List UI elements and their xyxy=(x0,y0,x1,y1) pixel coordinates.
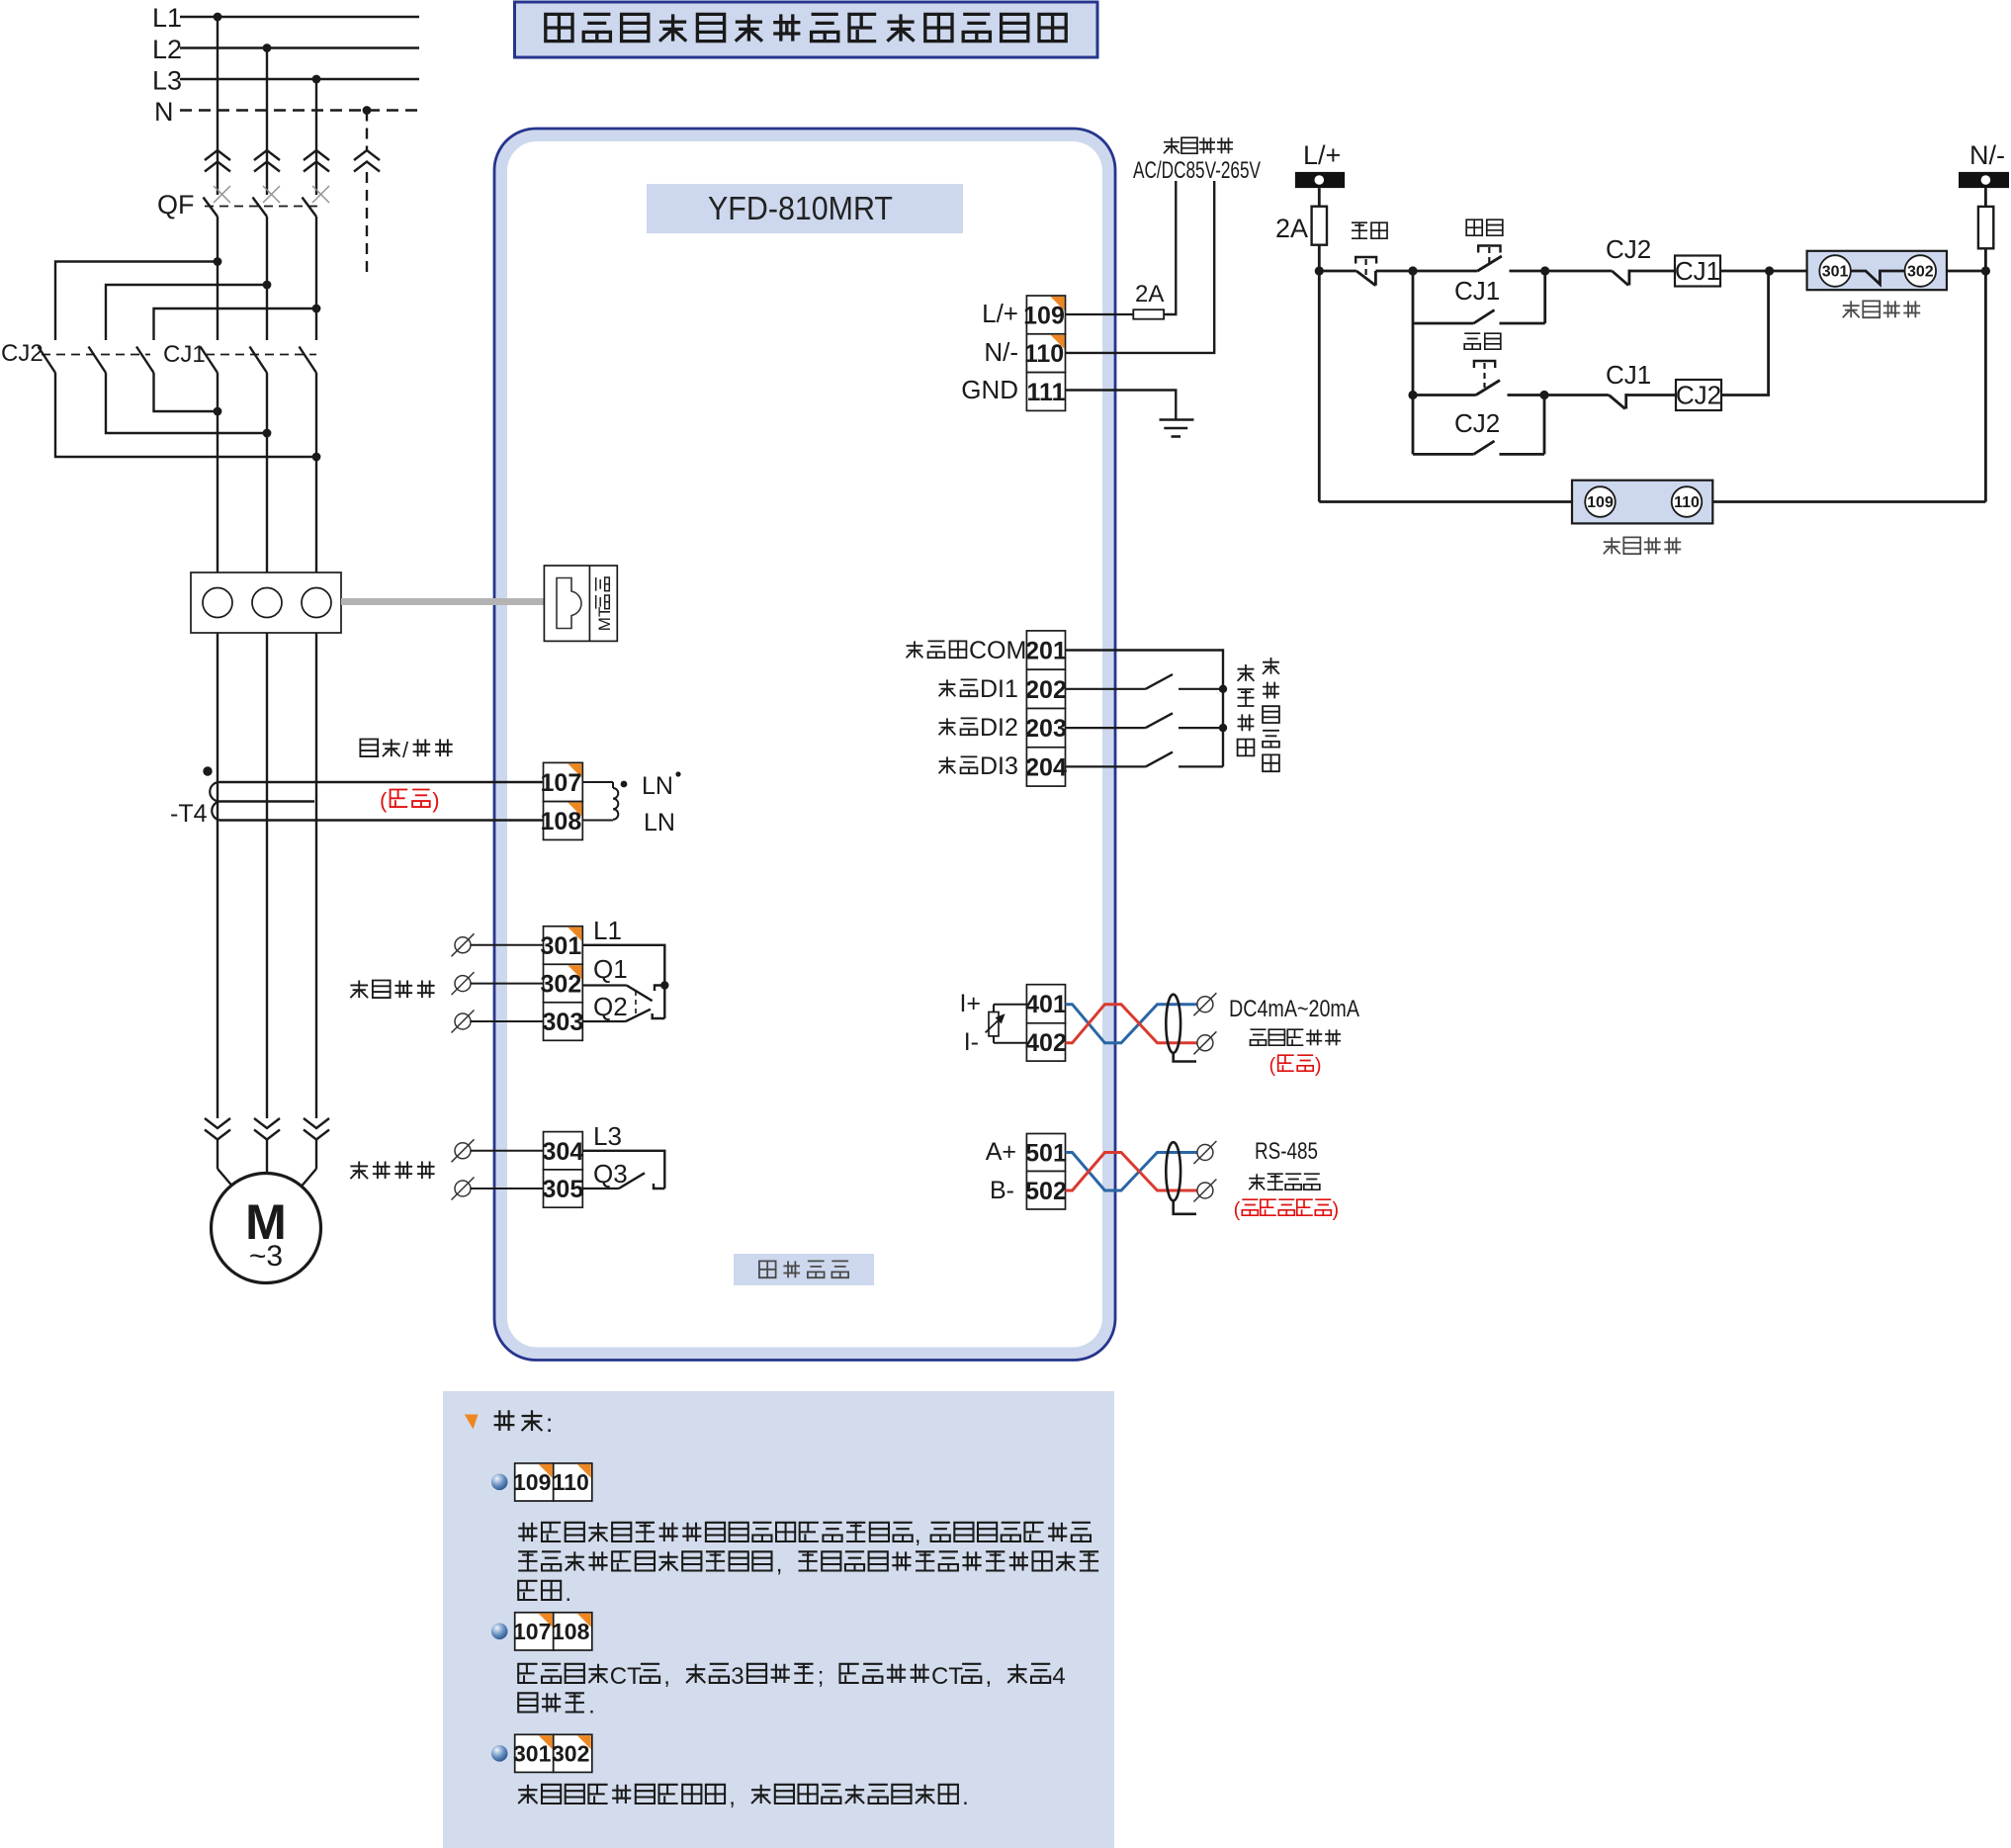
junction dot L rail xyxy=(1315,266,1324,275)
relay changeover fixed contact Q2 hook xyxy=(653,1013,665,1018)
svg-text:~3: ~3 xyxy=(249,1240,283,1273)
wire to CJ1 hold blade xyxy=(1413,322,1474,325)
svg-text:(: ( xyxy=(380,788,388,813)
screw RS485 B xyxy=(1197,1183,1213,1198)
wire phase A into motor xyxy=(217,1140,219,1170)
svg-text:CJ1: CJ1 xyxy=(1606,360,1651,390)
svg-text:I-: I- xyxy=(964,1028,979,1056)
bottom rail power box to N xyxy=(1712,500,1985,503)
notes marker triangle xyxy=(465,1415,479,1430)
wire 303 to blade xyxy=(582,1020,626,1022)
svg-text:COM: COM xyxy=(969,637,1026,664)
contactor CJ1 pole 3 blade xyxy=(300,347,317,374)
label 无源干接点 vertical xyxy=(1263,658,1279,674)
svg-text:MT: MT xyxy=(595,607,614,632)
svg-text:204: 204 xyxy=(1025,753,1067,781)
wire N/- into fuse xyxy=(1984,188,1987,501)
svg-text:108: 108 xyxy=(552,1619,590,1644)
terminal 203 xyxy=(1026,709,1065,748)
junction dot phase B branch xyxy=(263,281,272,290)
terminal 305 xyxy=(544,1170,583,1207)
wire CJ2 NC to coil CJ1 xyxy=(1629,270,1675,273)
motor feeder chevrons phase B xyxy=(254,1118,280,1128)
svg-text:201: 201 xyxy=(1025,638,1067,665)
wire fwd junction down to CJ1 hold xyxy=(1412,271,1415,454)
terminal 202 xyxy=(1026,669,1065,708)
contactor CJ1 linkage dashed xyxy=(206,354,316,356)
display port label box 显示接口 xyxy=(734,1254,874,1285)
contactor CJ1 pole 1 blade xyxy=(201,347,219,374)
junction dot CJ1 hold riser xyxy=(1540,266,1549,275)
breaker QF linkage dashed xyxy=(205,206,318,208)
svg-text:,: , xyxy=(776,1551,783,1578)
terminal 111 xyxy=(1026,373,1065,411)
svg-text:.: . xyxy=(565,1580,571,1607)
note paragraph 3 xyxy=(518,1785,537,1804)
label 保护输出 under box xyxy=(1843,301,1860,317)
screw RS485 A xyxy=(1197,1145,1213,1161)
screw analog - xyxy=(1197,1035,1213,1051)
wire screw to 303 xyxy=(471,1020,544,1022)
breaker isolator chevrons N xyxy=(354,150,380,160)
wire CJ2 pole2 crossover to phase B xyxy=(106,373,267,433)
fuse F1 2A xyxy=(1133,309,1164,319)
svg-text:L1: L1 xyxy=(593,916,622,945)
svg-text:3: 3 xyxy=(731,1663,743,1690)
motor feeder chevrons phase C xyxy=(304,1118,329,1128)
svg-text:110: 110 xyxy=(1674,494,1700,511)
wire phase B to CT xyxy=(266,373,268,572)
motor M 3-phase circle xyxy=(212,1174,321,1283)
protection output box 保护输出 xyxy=(1807,251,1947,290)
terminal 502 xyxy=(1026,1172,1065,1210)
coil CJ2 box xyxy=(1676,380,1721,410)
svg-text:501: 501 xyxy=(1025,1140,1067,1168)
wire rail to stop button xyxy=(1319,270,1356,273)
CT ring phase A xyxy=(203,588,232,618)
contact CJ1 NC blade xyxy=(1609,396,1625,409)
svg-text:203: 203 xyxy=(1025,715,1067,743)
stop button actuator xyxy=(1355,257,1376,264)
svg-text:.: . xyxy=(588,1693,595,1719)
screw terminal 302 xyxy=(455,976,471,992)
contactor CJ1 pole 2 blade xyxy=(250,347,268,374)
breaker QF pole 3 contact cross xyxy=(312,186,329,203)
label 报警输出 alarm output xyxy=(350,1162,368,1180)
wire N drop dashed xyxy=(366,111,368,151)
junction dot reverse merge xyxy=(1765,266,1774,275)
notes terminal pair 107 108 xyxy=(515,1613,554,1650)
svg-text:401: 401 xyxy=(1025,991,1067,1018)
svg-text:108: 108 xyxy=(541,808,582,836)
wire branch to CJ2 pole2 xyxy=(106,285,267,340)
MT port RJ45 icon xyxy=(557,578,581,629)
screw analog + xyxy=(1197,997,1213,1012)
svg-text:Q2: Q2 xyxy=(593,992,628,1021)
wire to CJ2 hold blade xyxy=(1413,453,1474,456)
wire DI2 to switch xyxy=(1066,727,1146,729)
stop button 停止 label xyxy=(1352,222,1367,238)
forward button actuator xyxy=(1478,246,1500,253)
svg-text:L/+: L/+ xyxy=(982,299,1018,328)
svg-text:305: 305 xyxy=(543,1176,584,1203)
device power box 装置电源 xyxy=(1572,481,1712,524)
twisted pair RS485 blue wire xyxy=(1066,1153,1198,1191)
relay device YFD-810MRT body outline xyxy=(494,129,1115,1361)
svg-text:QF: QF xyxy=(157,190,195,220)
wire phase C QF to CJ1 xyxy=(315,217,317,340)
junction dot relay common xyxy=(660,981,668,989)
terminal 301 xyxy=(544,926,583,965)
terminal 401 xyxy=(1026,985,1065,1023)
svg-text:I+: I+ xyxy=(959,990,981,1017)
svg-text:(: ( xyxy=(1269,1055,1276,1077)
CT ring phase B xyxy=(252,588,282,618)
coil polarity dot xyxy=(621,781,628,788)
svg-text:L3: L3 xyxy=(593,1121,622,1151)
svg-text:CJ2: CJ2 xyxy=(1676,381,1721,410)
svg-text:N/-: N/- xyxy=(1969,140,2005,170)
junction dot DI1 bus xyxy=(1219,685,1227,693)
wire phase C to CT xyxy=(315,373,317,572)
svg-text:304: 304 xyxy=(543,1138,584,1166)
wire L3 bus xyxy=(180,78,419,80)
junction dot at N rail xyxy=(1981,266,1990,275)
junction dot L1 tap xyxy=(214,13,222,22)
toroid CT T4 winding xyxy=(219,781,544,783)
breaker QF pole 2 blade xyxy=(253,198,268,218)
svg-text:B-: B- xyxy=(990,1177,1014,1204)
wire CJ2 pole1 crossover to phase C xyxy=(55,373,316,457)
svg-text:,: , xyxy=(986,1663,993,1690)
svg-text:.: . xyxy=(962,1784,969,1810)
junction dot crossover C xyxy=(312,453,321,462)
svg-text:2A: 2A xyxy=(1275,214,1308,243)
label 模拟量输出 xyxy=(1251,1029,1267,1045)
terminal 109 xyxy=(1026,296,1065,334)
screw terminal 301 xyxy=(455,937,471,953)
wire coil CJ2 up to output junction xyxy=(1721,271,1769,396)
wire N bus dashed xyxy=(180,109,419,111)
transducer arrow xyxy=(986,1016,1003,1032)
breaker QF pole 2 contact cross xyxy=(263,186,280,203)
twisted pair analog red wire xyxy=(1066,1005,1198,1043)
terminal 110 xyxy=(1026,334,1065,373)
wire fwd button to CJ2 NC xyxy=(1510,270,1613,273)
terminal 304 xyxy=(544,1132,583,1170)
svg-text:Q1: Q1 xyxy=(593,954,628,984)
wire phase C CT to toroid xyxy=(315,633,317,1118)
reverse button 反转 label xyxy=(1464,333,1480,349)
hold contact CJ2 blade xyxy=(1474,441,1495,454)
breaker QF pole 1 contact cross xyxy=(214,186,230,203)
wire COM to DI common bus xyxy=(1066,651,1224,767)
screw terminal 303 xyxy=(455,1013,471,1029)
svg-text:301: 301 xyxy=(541,932,582,960)
terminal 204 xyxy=(1026,748,1065,786)
wire phase B QF to CJ1 xyxy=(266,217,268,340)
breaker QF pole 3 blade xyxy=(303,198,317,218)
wire phase C drop from L3 xyxy=(315,79,317,195)
svg-text:109: 109 xyxy=(1587,494,1614,511)
CT ring phase C xyxy=(302,588,331,618)
wire junction to reverse button xyxy=(1413,394,1476,396)
svg-text:AC/DC85V-265V: AC/DC85V-265V xyxy=(1133,157,1261,184)
wire phase C into motor xyxy=(315,1140,317,1170)
svg-text:CJ1: CJ1 xyxy=(1454,276,1500,306)
contactor CJ2 pole 3 blade xyxy=(136,347,154,374)
wire 107 to coil LN xyxy=(582,781,613,783)
svg-text:-T4: -T4 xyxy=(170,800,208,828)
relay blade Q1 xyxy=(627,986,653,1002)
junction dot DI2 bus xyxy=(1219,724,1227,732)
wire CJ1 NC to coil CJ2 xyxy=(1626,394,1676,396)
svg-text:CJ1: CJ1 xyxy=(1675,256,1720,286)
junction dot crossover A xyxy=(214,407,222,416)
shield drain analog xyxy=(1174,1053,1196,1062)
supply bar L/+ xyxy=(1295,172,1345,188)
label 通用 DI2 xyxy=(939,718,956,735)
contact circle 301 xyxy=(1819,255,1851,287)
wire 301 relay common xyxy=(582,945,664,1018)
breaker isolator chevrons phase A xyxy=(205,150,230,160)
junction dot crossover B xyxy=(263,429,272,438)
svg-text:CJ2: CJ2 xyxy=(1454,408,1500,438)
twisted pair analog blue wire xyxy=(1066,1005,1198,1043)
svg-text:DI1: DI1 xyxy=(980,675,1018,703)
svg-text:107: 107 xyxy=(541,769,582,797)
svg-text:111: 111 xyxy=(1027,379,1066,406)
power circle 110 xyxy=(1672,486,1703,517)
label 公用端COM xyxy=(907,641,923,658)
label 通用 DI1 xyxy=(939,679,956,696)
junction dot N tap xyxy=(363,106,372,115)
control fuse N xyxy=(1978,207,1993,248)
cable shield ellipse RS485 xyxy=(1166,1142,1180,1200)
junction dot reverse row xyxy=(1408,391,1417,399)
svg-text:CT: CT xyxy=(610,1663,642,1690)
wire CJ2 hold to reverse riser xyxy=(1500,453,1545,456)
svg-text:LN: LN xyxy=(642,772,673,800)
twisted pair RS485 red wire xyxy=(1066,1153,1198,1191)
svg-text:CJ1: CJ1 xyxy=(163,341,206,368)
wire branch to CJ2 pole1 xyxy=(55,262,218,341)
svg-text:DI2: DI2 xyxy=(980,714,1018,742)
wire 108 to coil LN xyxy=(582,820,613,822)
ground symbol xyxy=(1160,418,1194,421)
contactor CJ2 pole 2 blade xyxy=(89,347,107,374)
remote switch DI3 blade xyxy=(1146,752,1173,767)
svg-text:109: 109 xyxy=(1023,302,1065,329)
transducer element xyxy=(989,1012,999,1036)
wire phase A to CT xyxy=(217,373,219,572)
wire screw to 305 xyxy=(471,1188,544,1189)
wire 305 to blade xyxy=(582,1188,619,1189)
label 通讯接口 xyxy=(1249,1174,1265,1189)
wire DI1 to switch xyxy=(1066,688,1146,690)
svg-text:): ) xyxy=(432,788,439,813)
wire phase B into motor xyxy=(266,1140,268,1175)
terminal 108 xyxy=(544,802,583,840)
wire phase B drop from L2 xyxy=(266,48,268,196)
svg-text:): ) xyxy=(1333,1199,1340,1221)
wire reverse button to CJ1 NC xyxy=(1508,394,1610,396)
svg-text:,: , xyxy=(915,1522,921,1548)
junction dot L3 tap xyxy=(312,75,321,84)
svg-text:4: 4 xyxy=(1052,1663,1065,1690)
wire screw to 301 xyxy=(471,944,544,946)
breaker isolator chevrons phase B xyxy=(254,150,280,160)
wire fuse to supply riser xyxy=(1164,181,1176,314)
notes bullet sphere 3 xyxy=(491,1745,508,1762)
alarm fixed contact hook xyxy=(654,1184,664,1188)
protection contact zigzag xyxy=(1851,271,1905,285)
svg-text:L/+: L/+ xyxy=(1303,140,1341,170)
wire branch to CJ2 pole3 xyxy=(154,308,317,340)
motor feeder chevrons phase A xyxy=(205,1118,230,1128)
svg-text:202: 202 xyxy=(1025,676,1067,704)
svg-text:GND: GND xyxy=(961,375,1018,404)
supply bar N/- xyxy=(1959,172,2009,188)
MT port label MT接口 vertical xyxy=(595,577,614,631)
svg-text:LN: LN xyxy=(644,809,675,836)
reverse button NO blade xyxy=(1476,381,1500,396)
relay changeover fixed contact Q1 hook xyxy=(655,986,664,992)
terminal 303 xyxy=(544,1003,583,1041)
svg-text:302: 302 xyxy=(541,971,582,999)
notes terminal pair 109 110 xyxy=(515,1463,554,1501)
svg-text:301: 301 xyxy=(1822,264,1849,281)
svg-text:110: 110 xyxy=(553,1469,589,1495)
svg-text:502: 502 xyxy=(1025,1178,1067,1205)
terminal 201 xyxy=(1026,631,1065,669)
label 遥信输入 vertical xyxy=(1238,664,1255,681)
svg-text:110: 110 xyxy=(1024,340,1064,368)
label 零序/漏电 xyxy=(360,740,378,757)
svg-text:/: / xyxy=(402,738,409,762)
svg-text:109: 109 xyxy=(513,1469,551,1495)
contactor CJ2 linkage dashed xyxy=(42,354,150,356)
notes panel background xyxy=(443,1391,1114,1848)
label 通用 DI3 xyxy=(939,756,956,773)
relay blade Q3 xyxy=(619,1173,645,1188)
reverse button actuator xyxy=(1474,361,1495,368)
svg-text:107: 107 xyxy=(513,1619,551,1644)
svg-text:L1: L1 xyxy=(152,3,182,33)
svg-text:L3: L3 xyxy=(152,66,182,96)
notes bullet sphere 2 xyxy=(491,1624,508,1640)
forward button NO blade xyxy=(1478,256,1502,271)
svg-text:YFD-810MRT: YFD-810MRT xyxy=(708,190,893,226)
shield drain RS485 xyxy=(1174,1200,1196,1213)
wire phase A CT to toroid xyxy=(217,633,219,1118)
transducer stub wires xyxy=(994,1004,1026,1006)
screw terminal 305 xyxy=(455,1181,471,1196)
wire junction to fwd button xyxy=(1413,270,1478,273)
wire L2 bus xyxy=(180,46,419,48)
inductor LN coil xyxy=(612,782,614,788)
label 保护输出 protection output xyxy=(350,981,368,999)
stop button NC blade xyxy=(1356,271,1376,286)
label 装置电源 under power box xyxy=(1604,537,1620,554)
bottom rail to power box xyxy=(1319,500,1572,503)
wire 302 to blade xyxy=(582,984,626,986)
junction dot fwd branch xyxy=(1408,266,1417,275)
cable shield ellipse analog xyxy=(1166,995,1180,1053)
breaker isolator chevrons phase C xyxy=(304,150,329,160)
svg-text:(: ( xyxy=(1234,1199,1241,1221)
toroid CT T4 polarity dot xyxy=(203,766,212,775)
svg-text:,: , xyxy=(729,1784,736,1810)
note paragraph 1 xyxy=(518,1523,537,1541)
wire phase A drop from L1 xyxy=(217,17,219,195)
junction dot L2 tap xyxy=(263,44,272,52)
svg-text:N: N xyxy=(154,97,174,127)
junction dot CJ2 hold riser xyxy=(1539,391,1548,399)
notes terminal pair 301 302 xyxy=(515,1734,554,1772)
remote switch DI1 blade xyxy=(1146,674,1173,689)
wire CJ2 pole3 crossover to phase A xyxy=(154,373,219,411)
current transformer block xyxy=(191,572,341,633)
wire stop to fwd junction xyxy=(1375,270,1413,273)
forward button 正转 label xyxy=(1466,220,1482,235)
title box 正反转保护跳闸方式典型接线图 xyxy=(515,2,1098,57)
wire 110 to supply riser xyxy=(1066,181,1215,353)
wire 304 alarm common xyxy=(582,1151,664,1188)
svg-text:,: , xyxy=(663,1663,670,1690)
contact CJ2 NC blade xyxy=(1612,271,1628,286)
wire L1 bus xyxy=(180,16,419,18)
svg-text:303: 303 xyxy=(543,1009,584,1036)
svg-text:CJ2: CJ2 xyxy=(1606,234,1651,264)
terminal 107 xyxy=(544,762,583,801)
wire L/+ into fuse xyxy=(1318,188,1321,271)
label 装置电源 device power top xyxy=(1164,137,1180,153)
svg-text:CT: CT xyxy=(931,1663,963,1690)
notes title 说明: xyxy=(494,1410,515,1431)
hold contact CJ1 blade xyxy=(1474,310,1495,324)
relay blade Q2 xyxy=(626,1010,651,1021)
power circle 109 xyxy=(1585,486,1616,517)
svg-text:402: 402 xyxy=(1025,1029,1067,1057)
svg-text:301: 301 xyxy=(513,1741,552,1767)
svg-text:): ) xyxy=(1315,1055,1322,1077)
svg-text:302: 302 xyxy=(1907,264,1934,281)
contactor CJ2 pole 1 blade xyxy=(39,347,56,374)
svg-text:DC4mA~20mA: DC4mA~20mA xyxy=(1229,996,1359,1022)
svg-text:A+: A+ xyxy=(986,1138,1016,1166)
svg-text:RS-485: RS-485 xyxy=(1255,1138,1318,1165)
breaker QF pole 1 blade xyxy=(204,198,219,218)
MT port connector box xyxy=(544,566,617,641)
wire DI3 to switch xyxy=(1066,765,1146,767)
svg-text::: : xyxy=(546,1408,553,1438)
svg-text:302: 302 xyxy=(552,1741,589,1767)
svg-text:;: ; xyxy=(818,1663,825,1690)
junction dot phase C branch xyxy=(312,305,321,313)
terminal 302 xyxy=(544,964,583,1003)
wire screw to 304 xyxy=(471,1150,544,1152)
gray cable CT to MT port xyxy=(341,598,545,605)
svg-text:Q3: Q3 xyxy=(593,1159,628,1188)
svg-text:CJ2: CJ2 xyxy=(1,340,44,367)
svg-text:L2: L2 xyxy=(152,35,182,64)
note paragraph 2 xyxy=(518,1664,537,1683)
wire screw to 302 xyxy=(471,983,544,985)
contact circle 302 xyxy=(1905,255,1937,287)
wire phase A QF to CJ1 xyxy=(217,217,219,340)
wire 111 to ground xyxy=(1066,391,1177,420)
